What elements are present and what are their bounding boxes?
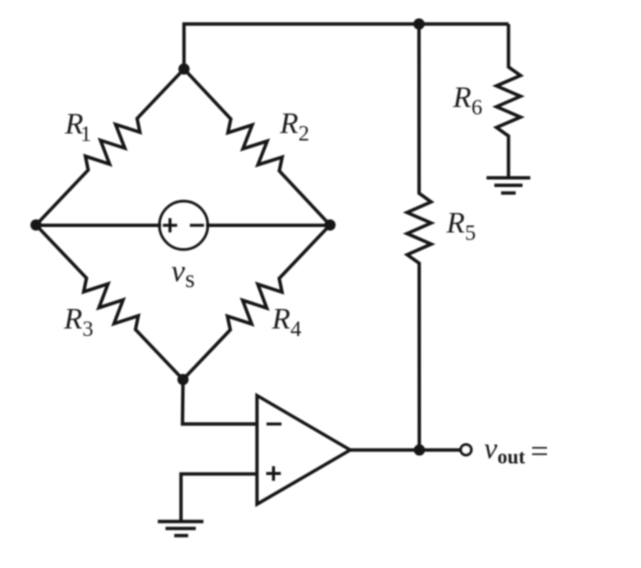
svg-text:=: =	[531, 433, 549, 469]
